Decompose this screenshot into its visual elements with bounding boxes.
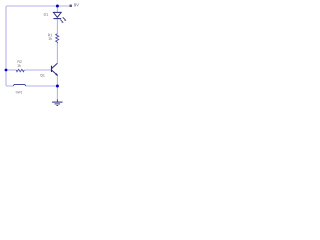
wire top rail V+ and left rail upper xyxy=(6,6,69,70)
wire LED cathode to R1 xyxy=(56,19,58,34)
label Q1 xyxy=(40,74,44,77)
label R1 xyxy=(48,34,52,36)
wire V+ node to LED anode xyxy=(56,6,58,12)
LED D1 xyxy=(53,12,61,18)
wire base node to R2 left xyxy=(6,69,16,71)
LED light arrow 2 xyxy=(60,20,63,23)
wire Q1 emitter to emitter node xyxy=(56,75,58,86)
transistor Q1 xyxy=(52,63,59,76)
LED light arrow 1 xyxy=(63,17,67,20)
wire emitter node to ground xyxy=(56,86,58,100)
wire R1 to Q1 collector xyxy=(56,43,58,63)
resistor R2 xyxy=(16,69,24,71)
label 9V xyxy=(74,3,79,6)
junction dot V+ node xyxy=(56,5,59,8)
power terminal 9V square xyxy=(70,5,72,7)
label SW1 xyxy=(16,91,23,93)
wire R2 to Q1 base xyxy=(24,69,51,71)
switch SW1 xyxy=(13,85,26,87)
junction dot emitter node xyxy=(56,85,59,88)
wire left rail lower xyxy=(6,70,13,86)
resistor R1 xyxy=(56,34,59,44)
wire switch SW1 to emitter node xyxy=(26,85,58,87)
label R2 xyxy=(18,60,22,62)
label R1 value 1k xyxy=(49,37,52,40)
label R2 value 1k xyxy=(17,64,20,67)
ground xyxy=(52,99,62,105)
junction dot base node xyxy=(5,69,8,72)
label D1 xyxy=(44,13,48,15)
